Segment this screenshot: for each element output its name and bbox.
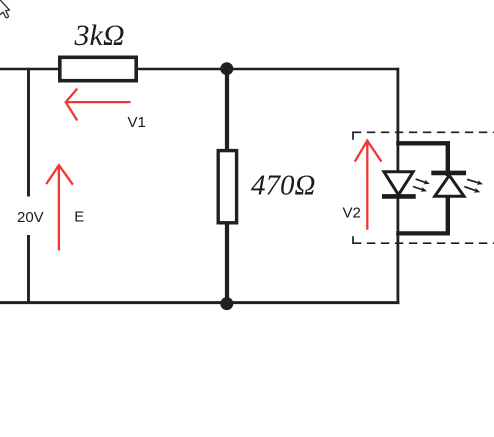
wire LED right branch lower [446, 194, 450, 236]
wire middle vertical lower [225, 221, 229, 303]
LED D1 emission arrow 1 [416, 179, 430, 184]
wire right vertical [396, 68, 399, 303]
svg-text:V1: V1 [128, 114, 146, 131]
node junction bottom [220, 297, 233, 310]
resistor R1 3kΩ (horizontal) [60, 57, 136, 80]
wire bottom horizontal [0, 301, 400, 304]
wire left vertical upper [27, 68, 30, 197]
svg-text:3kΩ: 3kΩ [74, 19, 125, 52]
mouse cursor [0, 0, 10, 18]
wire LED block top connector [396, 141, 450, 145]
svg-text:20V: 20V [17, 209, 44, 226]
dashed enclosure box [353, 132, 494, 245]
arrow E (red, pointing up) [46, 165, 73, 251]
LED D1 emission arrow 2 [413, 187, 427, 192]
wire left vertical lower [27, 235, 30, 304]
wire LED right branch upper [446, 141, 450, 176]
wire middle vertical upper [225, 69, 229, 153]
node junction top [220, 62, 233, 75]
arrow V2 (red, pointing up) [355, 141, 382, 230]
svg-text:E: E [74, 209, 84, 226]
svg-text:470Ω: 470Ω [251, 170, 315, 202]
LED D1 (left, cathode down) [382, 172, 416, 197]
svg-text:V2: V2 [343, 204, 361, 221]
LED D2 (right, cathode up) [431, 173, 466, 196]
wire top horizontal [0, 68, 399, 71]
wire LED block bottom connector [396, 231, 450, 235]
LED D2 emission arrow 1 [467, 179, 483, 185]
LED D2 emission arrow 2 [464, 187, 480, 193]
arrow V1 (red, pointing left) [66, 89, 131, 121]
resistor R2 470Ω (vertical) [218, 151, 236, 223]
